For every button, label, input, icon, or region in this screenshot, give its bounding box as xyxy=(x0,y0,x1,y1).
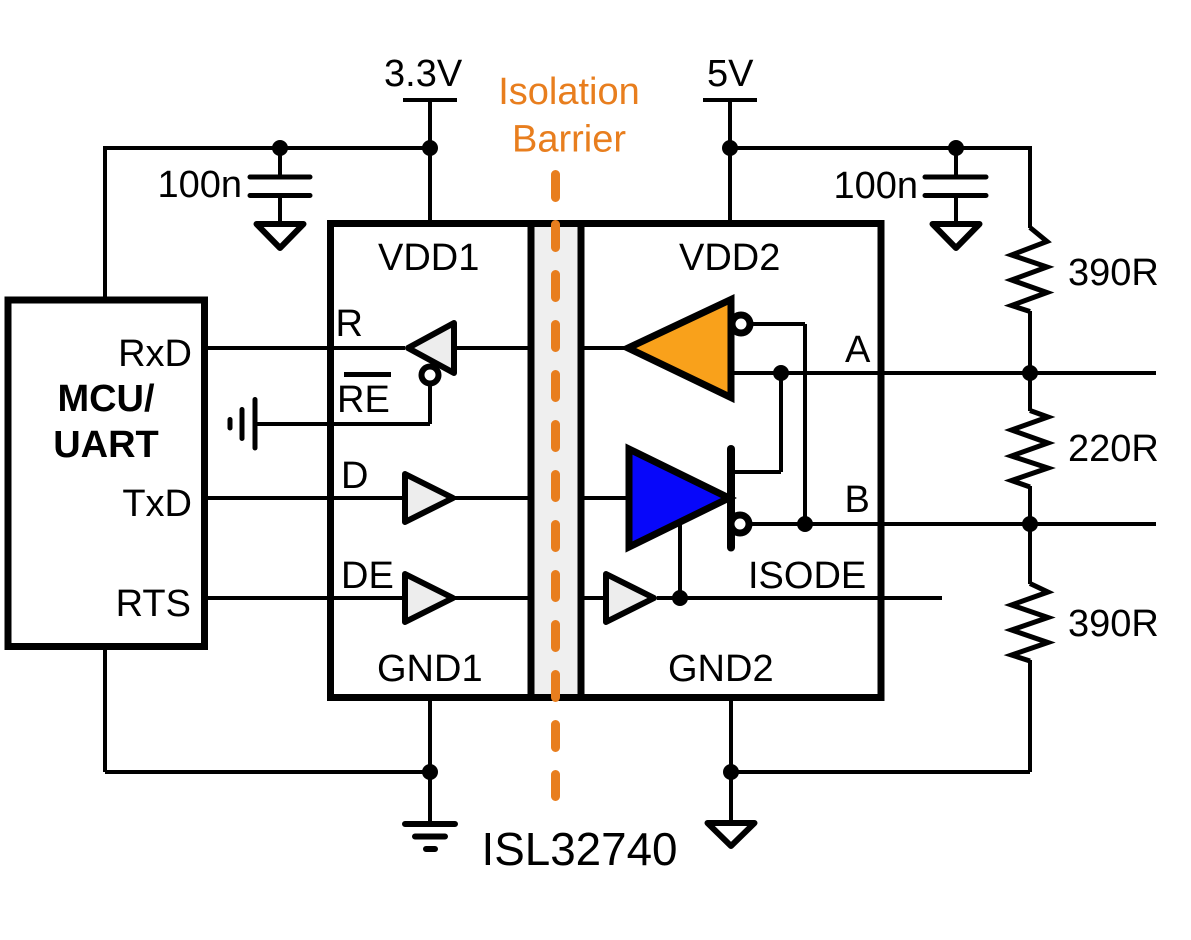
svg-text:220R: 220R xyxy=(1068,428,1159,470)
junction dot rail-cap xyxy=(272,140,288,156)
wire RTS to DE buffer xyxy=(204,596,407,600)
wire RE up to bubble xyxy=(428,384,432,424)
buffer D (points right) xyxy=(405,474,453,522)
resistor R3 390R bottom top lead xyxy=(1028,524,1032,584)
svg-text:VDD2: VDD2 xyxy=(679,237,780,279)
capacitor C1 100n left: top lead xyxy=(278,148,282,177)
wire R buffer input to barrier xyxy=(455,346,529,350)
buffer DE (points right) xyxy=(405,574,453,622)
resistor R2 220R zigzag xyxy=(1012,411,1049,488)
junction dot rail-cap2 xyxy=(948,140,964,156)
resistor R1 390R zigzag xyxy=(1012,228,1048,312)
svg-text:390R: 390R xyxy=(1068,252,1159,294)
buffer ISODE (points right) xyxy=(606,574,654,622)
svg-text:ISL32740: ISL32740 xyxy=(482,823,678,875)
svg-text:GND1: GND1 xyxy=(377,648,483,690)
svg-text:5V: 5V xyxy=(707,53,754,95)
svg-text:RE: RE xyxy=(337,379,390,421)
junction dot GND1 xyxy=(422,764,438,780)
junction dot ISODE xyxy=(672,590,688,606)
wire barrier to ISODE buffer xyxy=(583,596,607,600)
svg-text:A: A xyxy=(845,329,871,371)
ISL32740 outer box xyxy=(331,224,882,698)
svg-text:RxD: RxD xyxy=(118,333,192,375)
bubble driver inverting output xyxy=(731,515,749,533)
svg-text:DE: DE xyxy=(341,555,394,597)
wire barrier to orange receiver tip xyxy=(583,346,630,350)
wire barrier to driver input xyxy=(583,496,631,500)
wire: right top rail xyxy=(730,146,1030,150)
wire B line xyxy=(751,522,1156,526)
junction dot GND2 xyxy=(723,764,739,780)
isolation barrier dashed line xyxy=(551,175,560,797)
wire A line xyxy=(734,371,1156,375)
wire GND2 rail to R3 xyxy=(731,770,1030,774)
barrier left border xyxy=(528,220,535,701)
wire TxD to D buffer xyxy=(204,496,407,500)
svg-text:3.3V: 3.3V xyxy=(384,53,463,95)
op orange receiver U1 (points left) xyxy=(628,300,731,398)
power bar 3.3V xyxy=(403,98,457,102)
svg-text:D: D xyxy=(341,455,368,497)
buffer R (receiver side1, points left) xyxy=(408,323,454,373)
svg-text:100n: 100n xyxy=(833,165,918,207)
resistor R1 bottom lead xyxy=(1028,311,1032,373)
junction dot B-R2 xyxy=(1022,516,1038,532)
resistor R2 220R top lead xyxy=(1028,373,1032,411)
wire: 3.3V drop to VDD1 xyxy=(428,100,432,222)
wire ISODE up to driver xyxy=(678,524,682,598)
resistor R3 390R zigzag xyxy=(1012,584,1049,662)
wire GND1 rail xyxy=(105,770,430,774)
junction dot A-driver xyxy=(773,365,789,381)
resistor R1 390R top lead xyxy=(1028,146,1032,228)
svg-text:TxD: TxD xyxy=(122,483,192,525)
capacitor C1 plates xyxy=(250,177,310,196)
svg-text:R: R xyxy=(336,303,363,345)
capacitor C2 100n right: top lead xyxy=(954,148,958,177)
svg-text:Isolation: Isolation xyxy=(498,71,640,113)
ground triangle left cap xyxy=(257,224,304,248)
wire driver Y to A xyxy=(735,373,781,472)
resistor R2 bottom lead xyxy=(1028,486,1032,524)
bubble orange enable xyxy=(732,315,750,333)
junction dot rail-3.3V xyxy=(422,140,438,156)
wire MCU bottom to ground rail xyxy=(103,648,107,772)
svg-text:B: B xyxy=(845,479,870,521)
barrier right border xyxy=(578,220,585,701)
bubble RE enable xyxy=(422,367,439,384)
driver output bar xyxy=(727,449,735,548)
driver D2 blue triangle xyxy=(629,449,729,547)
MCU box xyxy=(8,300,205,647)
svg-text:100n: 100n xyxy=(157,164,242,206)
wire: left top rail xyxy=(105,146,430,150)
junction dot rail-5V xyxy=(722,140,738,156)
wire RE line xyxy=(257,422,430,426)
svg-text:MCU/: MCU/ xyxy=(57,378,155,420)
ground symbol at RE (rotated bars) xyxy=(230,400,255,449)
wire orange enable to B xyxy=(750,324,805,524)
capacitor C1 bottom lead xyxy=(278,195,282,224)
wire GND1 drop from box xyxy=(428,699,432,822)
svg-text:GND2: GND2 xyxy=(668,648,774,690)
wire GND2 drop from box xyxy=(729,699,733,821)
svg-text:ISODE: ISODE xyxy=(748,555,866,597)
junction dot A-R2 xyxy=(1022,365,1038,381)
wire D buffer out to barrier xyxy=(453,496,529,500)
ground triangle GND2 xyxy=(708,823,755,846)
capacitor C2 bottom lead xyxy=(954,195,958,224)
svg-text:RTS: RTS xyxy=(116,583,191,625)
ground triangle right cap xyxy=(933,224,980,248)
svg-text:UART: UART xyxy=(53,424,159,466)
wire DE buffer out to barrier xyxy=(453,596,529,600)
resistor R3 bottom lead xyxy=(1028,660,1032,772)
wire: 5V drop xyxy=(728,100,732,222)
svg-text:VDD1: VDD1 xyxy=(378,237,479,279)
wire ISODE out xyxy=(657,596,942,600)
wire RxD to R buffer xyxy=(204,346,405,350)
isolation barrier gray band xyxy=(535,220,578,701)
svg-text:390R: 390R xyxy=(1068,603,1159,645)
junction dot B-enable xyxy=(797,516,813,532)
svg-text:Barrier: Barrier xyxy=(512,119,626,161)
capacitor C2 plates xyxy=(925,177,986,196)
wire: left rail drop to MCU xyxy=(103,146,107,298)
ground symbol GND1 (earth bars) xyxy=(405,824,455,849)
power bar 5V xyxy=(703,98,757,102)
